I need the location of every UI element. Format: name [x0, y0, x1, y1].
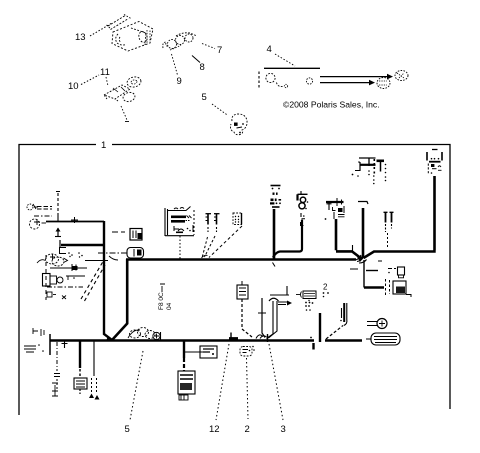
svg-text:5: 5 [125, 424, 130, 435]
svg-text:©2008 Polaris Sales, Inc.: ©2008 Polaris Sales, Inc. [283, 100, 380, 110]
svg-text:2: 2 [323, 283, 328, 292]
svg-text:5: 5 [202, 92, 207, 103]
svg-text:7: 7 [217, 45, 222, 56]
svg-text:4: 4 [267, 44, 272, 55]
svg-text:8: 8 [200, 62, 205, 73]
svg-text:9: 9 [177, 76, 182, 87]
svg-text:1: 1 [101, 140, 106, 151]
svg-text:2: 2 [245, 424, 250, 435]
svg-text:F8 0C: F8 0C [158, 292, 165, 310]
svg-text:04: 04 [166, 302, 173, 310]
svg-text:13: 13 [75, 32, 86, 43]
svg-text:11: 11 [100, 67, 110, 78]
svg-text:12: 12 [209, 424, 220, 435]
svg-text:10: 10 [68, 81, 79, 92]
svg-text:3: 3 [281, 424, 286, 435]
